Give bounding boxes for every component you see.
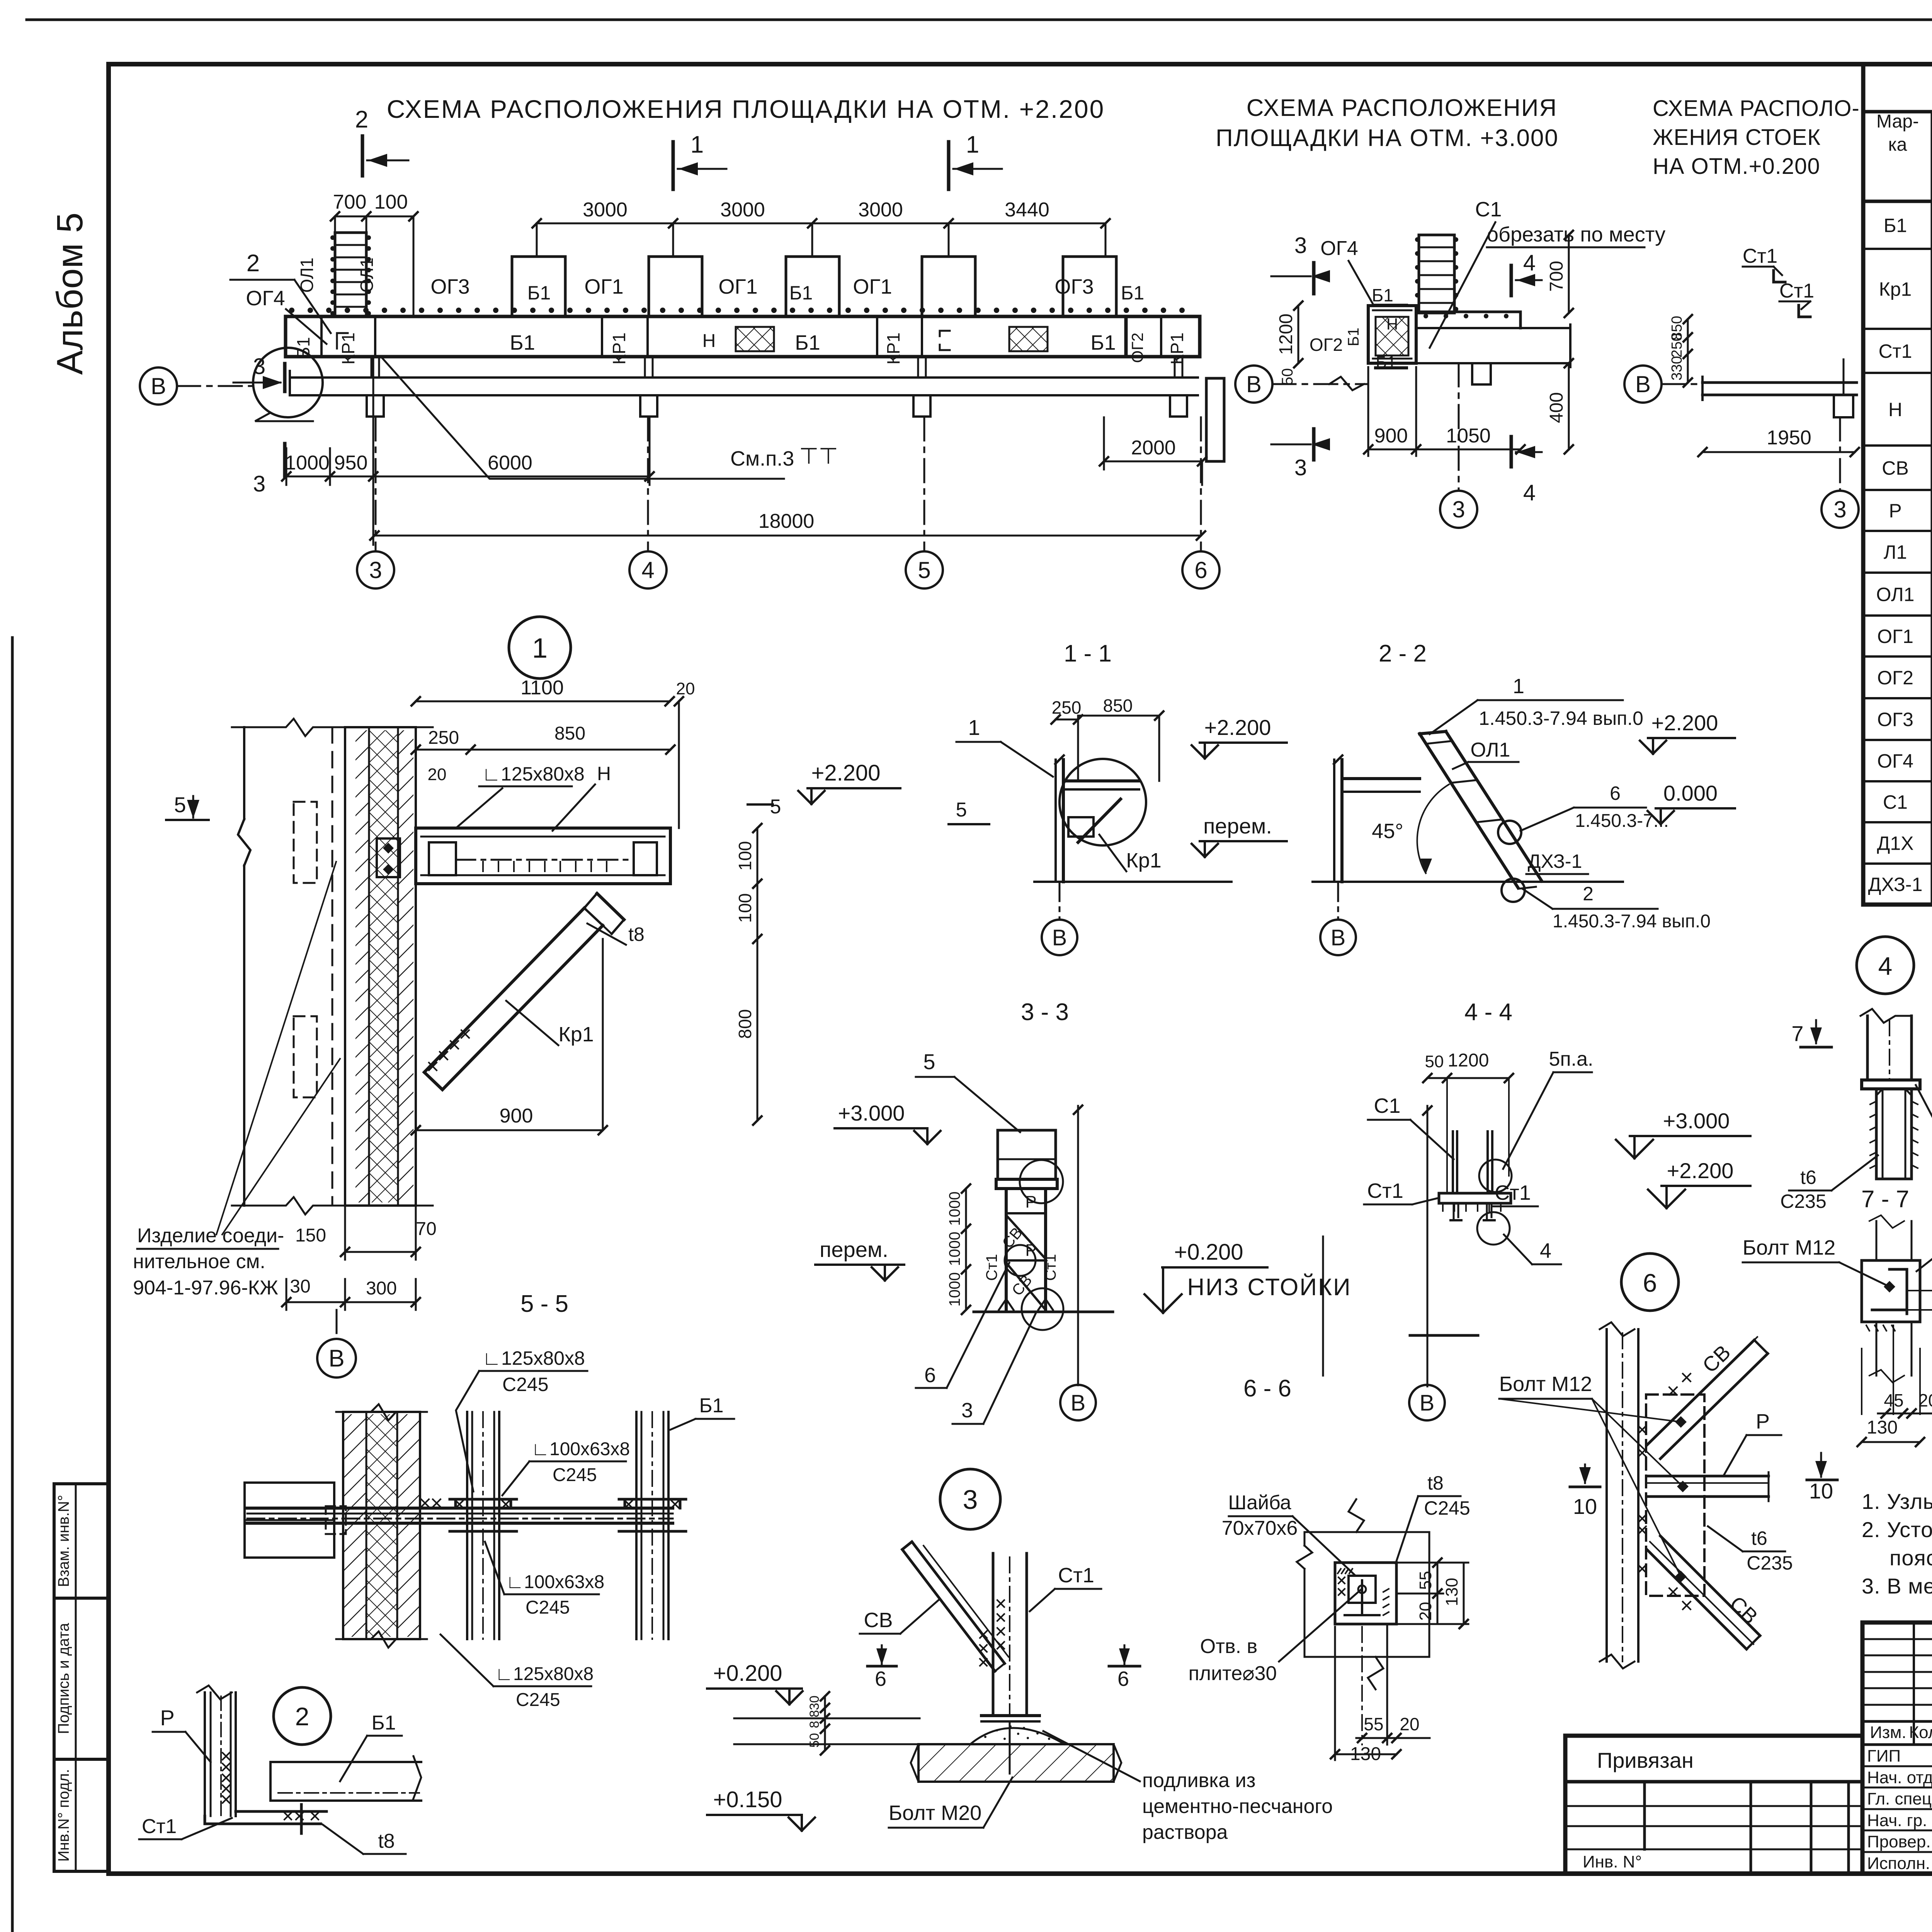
- svg-text:С245: С245: [553, 1465, 597, 1485]
- 5-5 posts: [466, 1412, 468, 1639]
- svg-text:3000: 3000: [583, 199, 628, 221]
- svg-text:4: 4: [1523, 250, 1536, 276]
- svg-text:Ст1: Ст1: [1367, 1179, 1403, 1202]
- svg-text:150: 150: [295, 1225, 326, 1246]
- svg-text:100: 100: [735, 893, 755, 923]
- svg-text:Б1: Б1: [1121, 282, 1145, 304]
- detail 1 bracket beam: [416, 828, 670, 884]
- svg-text:250: 250: [1669, 333, 1685, 357]
- title block: [1862, 1622, 1932, 1874]
- svg-text:С1: С1: [1883, 791, 1908, 813]
- svg-text:+0.200: +0.200: [1174, 1240, 1243, 1265]
- svg-text:⊤⊤: ⊤⊤: [799, 444, 838, 469]
- svg-text:3: 3: [1294, 455, 1307, 480]
- detail 4 bubble: [1857, 937, 1914, 994]
- svg-text:ОГ4: ОГ4: [1320, 237, 1358, 260]
- 3-3 strut column legs: [1005, 1189, 1008, 1310]
- detail 3 column: [992, 1553, 995, 1716]
- svg-text:нительное см.: нительное см.: [133, 1250, 265, 1273]
- 6-6 washer and angle: [1349, 1576, 1376, 1603]
- svg-text:6000: 6000: [488, 452, 532, 474]
- svg-text:Р: Р: [1889, 500, 1901, 522]
- 4-4 posts: [1452, 1131, 1454, 1193]
- plan right end element: [1206, 378, 1224, 461]
- 6-6 plate outer break square: [1304, 1532, 1429, 1657]
- svg-text:+2.200: +2.200: [1651, 711, 1718, 735]
- svg-text:Альбом 5: Альбом 5: [49, 213, 90, 375]
- svg-text:В: В: [151, 373, 166, 399]
- svg-text:20: 20: [676, 679, 695, 698]
- svg-text:1: 1: [1513, 675, 1524, 698]
- svg-text:Исполн.: Исполн.: [1867, 1854, 1930, 1873]
- svg-text:Изм.: Изм.: [1870, 1723, 1906, 1742]
- plan3 beam to right: [1416, 311, 1520, 313]
- svg-text:3: 3: [963, 1485, 978, 1515]
- 4-4 circles: [1479, 1160, 1512, 1192]
- svg-text:Н: Н: [702, 331, 716, 351]
- svg-text:30: 30: [290, 1276, 310, 1297]
- svg-text:Инв. N°: Инв. N°: [1583, 1852, 1642, 1871]
- svg-text:ОГ4: ОГ4: [1877, 750, 1913, 772]
- svg-text:Подпись и дата: Подпись и дата: [55, 1622, 72, 1734]
- svg-text:Шайба: Шайба: [1228, 1492, 1291, 1514]
- svg-text:700: 700: [1546, 261, 1567, 292]
- svg-text:Б1: Б1: [699, 1395, 723, 1417]
- svg-text:6: 6: [1610, 782, 1621, 804]
- plan3 ladder: [1419, 235, 1454, 313]
- svg-text:Н: Н: [1888, 399, 1902, 420]
- svg-text:1: 1: [966, 131, 979, 158]
- svg-text:30: 30: [807, 1696, 822, 1710]
- svg-text:6: 6: [924, 1364, 936, 1387]
- sidebar box Взам. инв.№: [54, 1484, 109, 1598]
- svg-text:1.450.3-7.94 вып.0: 1.450.3-7.94 вып.0: [1553, 911, 1711, 932]
- 5-5 cleats and welds: [454, 1499, 457, 1508]
- svg-text:С245: С245: [516, 1690, 560, 1710]
- svg-text:904-1-97.96-КЖ: 904-1-97.96-КЖ: [133, 1277, 278, 1299]
- svg-text:Р: Р: [160, 1706, 174, 1730]
- detail 3 foundation slab: [918, 1744, 1114, 1782]
- section 1-1 bracket: [1063, 779, 1139, 782]
- detail 1 wall breaks: [232, 719, 433, 736]
- svg-text:45: 45: [1884, 1390, 1903, 1410]
- svg-text:Ст1: Ст1: [1779, 280, 1814, 302]
- svg-text:t8: t8: [628, 923, 645, 945]
- svg-text:ОГ4: ОГ4: [246, 287, 285, 310]
- sidebar box Подпись и дата: [54, 1598, 109, 1759]
- svg-text:Б1: Б1: [1884, 215, 1907, 236]
- svg-text:6: 6: [1117, 1667, 1129, 1690]
- 5-5 left box: [245, 1483, 334, 1558]
- section 1-1 grid B: [1059, 882, 1061, 919]
- svg-text:ОЛ1: ОЛ1: [1471, 739, 1510, 761]
- svg-text:СХЕМА РАСПОЛОЖЕНИЯ ПЛОЩАДКИ: СХЕМА РАСПОЛОЖЕНИЯ ПЛОЩАДКИ НА ОТМ. +2.2…: [387, 95, 1105, 123]
- svg-text:1000: 1000: [946, 1272, 963, 1307]
- table rows: [1863, 248, 1932, 250]
- svg-text:Кр1: Кр1: [558, 1023, 594, 1046]
- svg-text:В: В: [1052, 925, 1067, 950]
- svg-text:Нач. гр.: Нач. гр.: [1867, 1811, 1927, 1830]
- svg-text:t6: t6: [1800, 1167, 1816, 1188]
- detail 6 weld marks: [1638, 1426, 1646, 1434]
- svg-text:4: 4: [641, 557, 654, 583]
- svg-text:400: 400: [1546, 392, 1567, 423]
- plan strip hatch Н areas: [736, 327, 774, 351]
- svg-text:Ст1: Ст1: [1042, 1254, 1059, 1281]
- svg-text:Болт М12: Болт М12: [1743, 1236, 1836, 1259]
- svg-text:130: 130: [1867, 1417, 1898, 1438]
- svg-text:СВ: СВ: [1882, 457, 1908, 479]
- title block signature rows: [1862, 1765, 1932, 1767]
- sidebar box Инв.№ подл.: [54, 1759, 109, 1871]
- svg-text:Взам. инв.N°: Взам. инв.N°: [55, 1495, 72, 1587]
- svg-text:55: 55: [1416, 1571, 1435, 1590]
- stoek grid 3: [1839, 417, 1841, 491]
- svg-text:+3.000: +3.000: [838, 1101, 905, 1125]
- svg-text:ка: ка: [1888, 134, 1907, 155]
- 7-7 inner angle: [1889, 1269, 1907, 1314]
- svg-text:5: 5: [174, 793, 186, 817]
- svg-text:Ст1: Ст1: [142, 1815, 177, 1838]
- grid B bubble for 5-5: [336, 1310, 338, 1338]
- stoek feet: [1834, 395, 1853, 417]
- svg-text:Б1: Б1: [371, 1712, 396, 1734]
- svg-text:перем.: перем.: [1203, 814, 1272, 838]
- detail 6 lower diagonal SV: [1647, 1549, 1747, 1649]
- detail 1 wall: [243, 727, 245, 819]
- svg-text:1.450.3-7...: 1.450.3-7...: [1575, 811, 1669, 831]
- svg-text:3: 3: [1294, 233, 1307, 258]
- svg-text:6: 6: [1194, 557, 1207, 583]
- svg-text:t6: t6: [1751, 1527, 1767, 1549]
- svg-text:Кол.уч: Кол.уч: [1909, 1723, 1932, 1742]
- svg-text:поясу балок, прерывистым швом: поясу балок, прерывистым швом h=4мм, дли…: [1889, 1546, 1932, 1570]
- svg-text:+3.000: +3.000: [1663, 1109, 1730, 1133]
- svg-text:Отв. в: Отв. в: [1200, 1635, 1257, 1658]
- detail 1 strut welds: [429, 1063, 437, 1070]
- svg-text:ОГ3: ОГ3: [1877, 709, 1913, 730]
- svg-text:5: 5: [918, 557, 930, 583]
- svg-text:ОГ1: ОГ1: [584, 275, 623, 298]
- svg-text:С245: С245: [1424, 1497, 1470, 1519]
- svg-text:45°: 45°: [1372, 820, 1403, 843]
- low point grid line: [1322, 1236, 1324, 1376]
- svg-text:700: 700: [333, 191, 367, 213]
- svg-text:См.п.3: См.п.3: [730, 447, 794, 470]
- svg-text:4: 4: [1540, 1239, 1551, 1262]
- 4-4 ground line: [1410, 1334, 1478, 1337]
- svg-text:ОГ2: ОГ2: [1877, 667, 1913, 689]
- svg-text:Болт М12: Болт М12: [1499, 1372, 1592, 1396]
- svg-text:Привязан: Привязан: [1597, 1748, 1694, 1772]
- svg-text:100: 100: [374, 191, 408, 213]
- svg-text:850: 850: [554, 723, 585, 744]
- svg-text:1 - 1: 1 - 1: [1064, 640, 1112, 667]
- 6-6 grid B right: [1409, 1385, 1445, 1420]
- detail 4 channel below: [1876, 1089, 1912, 1179]
- stoek angle st1 marks: [1774, 270, 1785, 282]
- svg-text:КР1: КР1: [1167, 332, 1187, 364]
- svg-text:С235: С235: [1747, 1552, 1793, 1574]
- 5-5 wall: [343, 1412, 420, 1639]
- svg-text:В: В: [1331, 925, 1346, 950]
- svg-text:Болт М20: Болт М20: [889, 1801, 982, 1825]
- 6-6 dims right: [1437, 1563, 1439, 1594]
- svg-text:3 - 3: 3 - 3: [1021, 999, 1069, 1026]
- plan top dims 700 100: [335, 216, 413, 218]
- detail 1 right dims: [757, 828, 759, 884]
- svg-text:8: 8: [807, 1710, 822, 1718]
- svg-text:4 - 4: 4 - 4: [1464, 999, 1512, 1026]
- plan grid bubbles 3 4 5 6: [375, 417, 377, 551]
- svg-text:7: 7: [1791, 1021, 1803, 1046]
- plan stair ladder: [335, 233, 366, 316]
- plan +2.200 platform strip: [286, 316, 1200, 357]
- svg-text:5п.а.: 5п.а.: [1549, 1048, 1594, 1070]
- svg-text:С245: С245: [526, 1597, 570, 1618]
- 3-3 wall line right: [1077, 1106, 1079, 1385]
- svg-text:20: 20: [1400, 1714, 1419, 1734]
- svg-text:Мар-: Мар-: [1876, 111, 1919, 132]
- svg-text:+2.200: +2.200: [1667, 1158, 1734, 1183]
- 7-7 post lines: [1876, 1221, 1878, 1260]
- svg-text:4: 4: [1523, 480, 1536, 505]
- svg-text:1: 1: [690, 131, 704, 158]
- svg-text:+2.200: +2.200: [811, 760, 880, 786]
- svg-text:8: 8: [807, 1721, 822, 1728]
- svg-text:С1: С1: [1475, 198, 1502, 221]
- svg-text:6: 6: [1643, 1269, 1657, 1297]
- svg-text:∟125х80х8: ∟125х80х8: [482, 763, 585, 785]
- svg-text:6: 6: [875, 1667, 886, 1690]
- svg-text:10: 10: [1573, 1494, 1597, 1519]
- svg-text:1000: 1000: [285, 452, 330, 474]
- svg-text:1050: 1050: [1446, 425, 1491, 447]
- detail 3 anchor bolt: [1009, 1721, 1011, 1774]
- svg-text:850: 850: [1103, 696, 1133, 716]
- 6-6 inner plate: [1335, 1563, 1396, 1624]
- svg-text:Гл. спец.: Гл. спец.: [1867, 1789, 1932, 1808]
- svg-text:55: 55: [1364, 1714, 1383, 1734]
- stoek dim 1950: [1702, 451, 1855, 453]
- svg-text:Б1: Б1: [527, 282, 551, 304]
- detail 3 weld marks: [997, 1600, 1004, 1607]
- svg-text:ОГ3: ОГ3: [1054, 275, 1094, 298]
- svg-text:70х70х6: 70х70х6: [1222, 1517, 1298, 1539]
- svg-text:НА ОТМ.+0.200: НА ОТМ.+0.200: [1653, 154, 1820, 179]
- 3-3 feet: [999, 1299, 1014, 1310]
- svg-text:Н: Н: [597, 763, 611, 784]
- section 1-1 ground: [1034, 881, 1231, 883]
- svg-text:В: В: [1635, 371, 1651, 397]
- svg-text:3440: 3440: [1005, 199, 1049, 221]
- svg-text:20: 20: [1416, 1602, 1435, 1621]
- section 2-2 rings: [1498, 821, 1521, 844]
- element list table: [1863, 64, 1932, 905]
- detail 6 upper diagonal SV: [1647, 1340, 1754, 1445]
- svg-text:Б1: Б1: [1345, 328, 1362, 347]
- svg-text:ОГ1: ОГ1: [1877, 626, 1913, 647]
- svg-text:3: 3: [369, 557, 382, 583]
- 4-4 grid line left: [1427, 1106, 1429, 1386]
- svg-text:обрезать по месту: обрезать по месту: [1487, 223, 1665, 246]
- svg-text:250: 250: [1052, 697, 1082, 718]
- detail 6 bubble: [1621, 1253, 1679, 1311]
- section 2-2 ground and grid: [1313, 881, 1623, 883]
- plan beam stubs above strip: [512, 257, 565, 316]
- svg-text:130: 130: [1442, 1578, 1461, 1606]
- svg-text:2: 2: [247, 250, 260, 277]
- svg-text:ДХЗ-1: ДХЗ-1: [1528, 850, 1582, 872]
- svg-text:Б1: Б1: [789, 282, 813, 304]
- svg-text:перем.: перем.: [820, 1237, 888, 1262]
- section 1-1 detail circle: [1060, 759, 1146, 845]
- stoek grid B: [1624, 366, 1662, 403]
- svg-text:раствора: раствора: [1142, 1821, 1228, 1844]
- svg-text:Б1: Б1: [1372, 285, 1393, 305]
- svg-text:Р: Р: [1756, 1410, 1770, 1433]
- detail 6 gusset plate: [1646, 1395, 1704, 1596]
- detail 3 grout mound: [970, 1728, 1065, 1744]
- svg-text:3. В местах пропуска оборудова: 3. В местах пропуска оборудования огражд…: [1862, 1574, 1932, 1598]
- svg-text:t8: t8: [378, 1830, 395, 1852]
- svg-text:Ст1: Ст1: [1495, 1181, 1531, 1204]
- svg-text:0.000: 0.000: [1663, 781, 1718, 805]
- svg-text:+2.200: +2.200: [1204, 715, 1271, 740]
- svg-text:1: 1: [532, 633, 548, 664]
- detail 1 diagonal strut: [424, 908, 584, 1072]
- detail 6 post: [1605, 1329, 1608, 1662]
- plan bottom dims 1000 950 6000 2000: [286, 476, 650, 478]
- section 2-2 ladder stringer: [1420, 734, 1518, 888]
- plan3 grid 3 bubble: [1458, 363, 1460, 491]
- svg-text:300: 300: [366, 1278, 397, 1299]
- svg-text:Б1: Б1: [795, 331, 820, 354]
- svg-text:250: 250: [428, 728, 459, 748]
- svg-text:подливка из: подливка из: [1142, 1769, 1255, 1792]
- svg-text:Провер.: Провер.: [1867, 1832, 1931, 1851]
- svg-text:Б1: Б1: [510, 331, 535, 354]
- svg-text:ОГ2: ОГ2: [1128, 333, 1146, 363]
- svg-text:Кр1: Кр1: [1879, 279, 1912, 300]
- plan strip railing dots: [289, 308, 294, 313]
- svg-text:Д1Х: Д1Х: [1877, 833, 1913, 854]
- detail 1 embedded plates: [294, 802, 317, 883]
- detail 2 bubble: [274, 1687, 331, 1745]
- svg-text:В: В: [1420, 1390, 1435, 1415]
- plan top dims 3000 3440: [537, 223, 1105, 224]
- svg-text:3000: 3000: [720, 199, 765, 221]
- svg-text:∟125х80х8: ∟125х80х8: [495, 1664, 594, 1684]
- svg-text:Ст1: Ст1: [1879, 340, 1912, 362]
- svg-text:СХЕМА РАСПОЛОЖЕНИЯ: СХЕМА РАСПОЛОЖЕНИЯ: [1247, 95, 1558, 121]
- svg-text:∟125х80х8: ∟125х80х8: [482, 1347, 585, 1369]
- svg-text:ГИП: ГИП: [1867, 1747, 1901, 1765]
- svg-text:1000: 1000: [946, 1192, 963, 1226]
- svg-text:НИЗ СТОЙКИ: НИЗ СТОЙКИ: [1187, 1274, 1351, 1301]
- 6-6 plate break marks: [1297, 1546, 1312, 1569]
- plan3 platform box: [1368, 306, 1416, 363]
- svg-text:4: 4: [1878, 952, 1893, 980]
- svg-text:3: 3: [961, 1399, 973, 1422]
- 3-3 cap plate: [996, 1179, 1057, 1189]
- svg-text:50: 50: [1279, 368, 1296, 386]
- svg-text:∟100х63х8: ∟100х63х8: [506, 1572, 604, 1592]
- svg-text:t8: t8: [1427, 1472, 1444, 1494]
- plan detail circle callout: [253, 348, 323, 417]
- svg-text:КР1: КР1: [609, 332, 629, 364]
- detail 3 mound dots: [984, 1736, 986, 1738]
- svg-text:50: 50: [807, 1733, 822, 1748]
- attachment table: [1565, 1736, 1862, 1874]
- svg-text:5: 5: [956, 799, 967, 821]
- svg-text:1950: 1950: [1767, 427, 1811, 449]
- svg-text:2: 2: [355, 106, 368, 133]
- detail 3 diagonal SV: [912, 1542, 1005, 1663]
- svg-text:Н: Н: [1386, 315, 1398, 333]
- svg-text:ОГ1: ОГ1: [853, 275, 892, 298]
- svg-text:ОГ2: ОГ2: [1310, 335, 1343, 355]
- plan lower beam strip: [290, 376, 1198, 379]
- svg-text:950: 950: [334, 452, 368, 474]
- svg-text:ОЛ1: ОЛ1: [1876, 584, 1915, 605]
- svg-text:2 - 2: 2 - 2: [1379, 640, 1427, 667]
- svg-text:2: 2: [295, 1702, 310, 1731]
- svg-text:3000: 3000: [858, 199, 903, 221]
- svg-text:1200: 1200: [1276, 314, 1296, 355]
- svg-text:6 - 6: 6 - 6: [1243, 1375, 1291, 1402]
- section 1-1 wall line: [1054, 760, 1057, 882]
- 3-3 ground line: [974, 1311, 1113, 1313]
- svg-text:ЖЕНИЯ СТОЕК: ЖЕНИЯ СТОЕК: [1653, 125, 1821, 150]
- plan dim 18000: [374, 535, 1201, 537]
- grid line B row: [140, 367, 177, 405]
- stoek vertical dims: [1687, 319, 1689, 383]
- svg-text:330: 330: [1669, 356, 1685, 380]
- svg-text:В: В: [1246, 371, 1262, 397]
- svg-text:3: 3: [1452, 497, 1465, 522]
- svg-text:2. Устойчивость балок площадок: 2. Устойчивость балок площадок обеспечит…: [1862, 1517, 1932, 1542]
- svg-text:С1: С1: [1374, 1094, 1400, 1117]
- svg-text:Нач. отд.: Нач. отд.: [1867, 1768, 1932, 1787]
- 7-7 square: [1862, 1260, 1920, 1322]
- stoek beam plan: [1702, 381, 1857, 384]
- svg-text:+0.150: +0.150: [713, 1787, 782, 1812]
- plan strip internal dividers: [320, 316, 323, 357]
- svg-text:18000: 18000: [759, 510, 815, 532]
- svg-text:СВ: СВ: [1698, 1340, 1735, 1377]
- section 2-2 wall and bracket: [1333, 760, 1335, 882]
- svg-text:1.450.3-7.94 вып.0: 1.450.3-7.94 вып.0: [1479, 707, 1643, 729]
- 3-3 grid B: [1060, 1385, 1096, 1420]
- svg-text:1100: 1100: [520, 677, 564, 699]
- 3-3 top box: [998, 1130, 1056, 1179]
- svg-text:3: 3: [1833, 497, 1846, 522]
- svg-text:Кр1: Кр1: [1126, 849, 1162, 872]
- 5-5 beam lines: [247, 1507, 673, 1510]
- svg-text:СВ: СВ: [864, 1609, 893, 1632]
- svg-text:900: 900: [1374, 425, 1408, 447]
- svg-text:цементно-песчаного: цементно-песчаного: [1142, 1795, 1333, 1818]
- svg-text:+0.200: +0.200: [713, 1661, 782, 1686]
- 3-3 joint circles: [1020, 1160, 1063, 1203]
- svg-text:Б1: Б1: [1090, 331, 1116, 354]
- svg-text:100: 100: [735, 841, 755, 871]
- plan column feet: [367, 395, 384, 417]
- svg-text:50: 50: [1425, 1052, 1444, 1071]
- svg-text:Ст1: Ст1: [1743, 245, 1777, 267]
- svg-text:В: В: [328, 1345, 344, 1372]
